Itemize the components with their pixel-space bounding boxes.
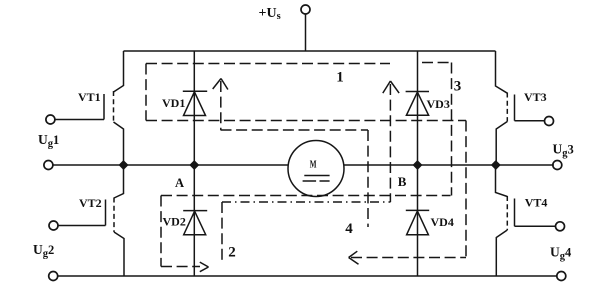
svg-text:3: 3 — [454, 79, 462, 95]
arrowhead right path2 — [200, 262, 209, 272]
wire dashed arrow shaft near B — [389, 84, 391, 202]
svg-text:4: 4 — [345, 221, 353, 237]
label VT4 — [525, 196, 548, 210]
svg-text:2: 2 — [228, 245, 236, 261]
svg-text:VT1: VT1 — [78, 90, 101, 104]
wire dashed vertical x368 — [367, 130, 369, 227]
label VD4 — [431, 215, 454, 229]
svg-text:VD4: VD4 — [431, 215, 454, 229]
svg-text:M: M — [310, 159, 317, 171]
wire dashed bottom path4 — [351, 257, 466, 259]
label Ug3 — [553, 142, 574, 159]
wire dashed vertical x451 — [451, 63, 453, 196]
arrowhead left path4 — [349, 251, 359, 264]
wire dashed loop2 left edge — [160, 196, 162, 267]
transistor VT4 — [496, 165, 508, 197]
wire bottom rail — [57, 275, 557, 277]
diode VD1 — [193, 51, 195, 165]
terminal middle-right (VT3 emitter) — [553, 161, 562, 170]
svg-text:VD1: VD1 — [162, 96, 185, 110]
wire dashed long row y120 — [146, 120, 466, 122]
label Ug4 — [550, 245, 572, 262]
wire dashed vertical x466 — [465, 121, 467, 258]
terminal Ug1 gate — [46, 115, 55, 124]
svg-text:Ug2: Ug2 — [33, 242, 54, 259]
transistor VT1 — [114, 51, 124, 92]
wire dashed bottom path2 — [161, 266, 200, 268]
node junction right leg — [492, 161, 500, 169]
svg-text:VD3: VD3 — [427, 97, 450, 111]
transistor VT3 — [496, 51, 508, 93]
label VD3 — [427, 97, 450, 111]
diode VD2 — [193, 165, 195, 276]
label 2 — [228, 245, 236, 261]
svg-text:B: B — [398, 174, 407, 189]
transistor VT2 — [114, 165, 124, 198]
label B — [398, 174, 407, 189]
wire dash-dot row y202 — [222, 201, 391, 203]
svg-text:VT3: VT3 — [524, 90, 547, 104]
terminal Ug3 gate — [545, 117, 554, 126]
wire dashed long row y195 — [161, 195, 451, 197]
wire dashed vertical near label2 — [221, 202, 223, 261]
svg-text:1: 1 — [336, 69, 344, 85]
svg-text:VD2: VD2 — [163, 215, 186, 229]
svg-text:Ug4: Ug4 — [550, 245, 572, 262]
label VD2 — [163, 215, 186, 229]
arrowhead up near VD1 — [213, 79, 228, 90]
label +Us — [259, 6, 281, 22]
wire dashed top edge path1 — [146, 63, 390, 65]
wire dashed top edge path3 — [422, 62, 452, 64]
terminal middle-left — [44, 161, 53, 170]
label Ug1 — [38, 132, 59, 149]
label VT3 — [524, 90, 547, 104]
wire dashed row y130 — [221, 129, 369, 131]
terminal Ug4 gate — [556, 222, 565, 231]
label 3 — [454, 79, 462, 95]
label VT2 — [79, 196, 102, 210]
wire dashed left edge path1 — [145, 64, 147, 121]
svg-text:A: A — [175, 176, 184, 190]
wire top rail — [124, 50, 496, 52]
wire middle rail left — [53, 164, 288, 166]
terminal Ug2 gate — [49, 221, 58, 230]
label VD1 — [162, 96, 185, 110]
node B junction — [414, 161, 422, 169]
dashed current path lines — [146, 63, 466, 267]
+Us supply terminal — [301, 5, 310, 14]
label 4 — [345, 221, 353, 237]
svg-text:+Us: +Us — [259, 6, 281, 22]
svg-text:VT2: VT2 — [79, 196, 102, 210]
terminal bottom-left — [49, 272, 58, 281]
diode VD4 — [417, 165, 419, 276]
wire middle rail right — [344, 164, 554, 166]
terminal bottom-right — [557, 272, 566, 281]
label A — [175, 176, 184, 190]
label 1 — [336, 69, 344, 85]
node junction left leg — [120, 161, 128, 169]
arrowhead up near B — [383, 81, 399, 93]
svg-text:VT4: VT4 — [525, 196, 548, 210]
svg-text:Ug3: Ug3 — [553, 142, 574, 159]
wire +Us lead — [305, 14, 307, 51]
wire dashed arrow shaft near VD1 — [220, 81, 222, 130]
node A junction — [190, 161, 198, 169]
motor M — [288, 141, 344, 197]
label VT1 — [78, 90, 101, 104]
svg-text:Ug1: Ug1 — [38, 132, 59, 149]
label Ug2 — [33, 242, 54, 259]
diode VD3 — [417, 51, 419, 165]
